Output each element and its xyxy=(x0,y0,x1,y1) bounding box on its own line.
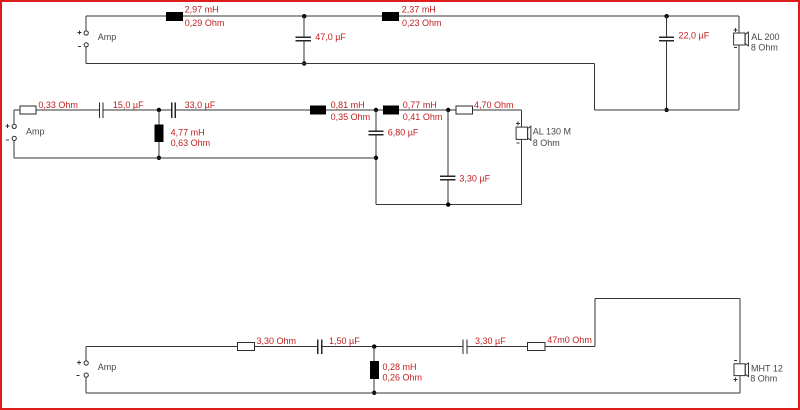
amp plus sign xyxy=(77,361,81,365)
wire L6 upper lead xyxy=(373,347,375,361)
svg-text:MHT 12: MHT 12 xyxy=(751,363,783,373)
speaker MHT 12 cone xyxy=(745,363,748,377)
capacitor C5 6,80 uF plates xyxy=(368,131,383,135)
capacitor C8 3,30 uF plates xyxy=(463,339,467,353)
resistor R1 0,33 Ohm xyxy=(20,106,36,114)
capacitor C6 3,30 uF plates xyxy=(440,176,455,180)
resistor R4 47m0 Ohm xyxy=(528,343,546,351)
wire bottom rail xyxy=(86,63,594,65)
svg-text:Amp: Amp xyxy=(98,362,117,372)
svg-text:0,81 mH: 0,81 mH xyxy=(331,100,365,110)
svg-text:Amp: Amp xyxy=(26,126,45,136)
speaker AL 200 cone xyxy=(745,32,748,46)
svg-text:2,97 mH: 2,97 mH xyxy=(185,5,219,15)
node: main rail / C5 junction xyxy=(374,108,378,112)
wire top rail xyxy=(86,15,739,17)
wire main rail segment 4 xyxy=(468,346,528,348)
node: top rail / C1 junction xyxy=(302,14,306,18)
svg-text:6,80 µF: 6,80 µF xyxy=(388,128,419,138)
node: return / C2 junction xyxy=(664,108,668,112)
svg-text:33,0 µF: 33,0 µF xyxy=(185,100,216,110)
capacitor C3 15,0 uF plates xyxy=(100,103,104,118)
svg-text:22,0 µF: 22,0 µF xyxy=(679,31,710,41)
svg-text:8 Ohm: 8 Ohm xyxy=(750,374,777,384)
svg-text:15,0 µF: 15,0 µF xyxy=(113,100,144,110)
amp plus sign xyxy=(6,124,10,128)
wire return horizontal upper xyxy=(595,109,740,111)
wire return rail xyxy=(86,392,740,394)
amp minus sign xyxy=(6,139,9,141)
wire amp- stub down xyxy=(13,141,15,158)
wire amp+ stub up xyxy=(13,110,15,124)
wire speaker bottom lead down xyxy=(521,139,523,204)
wire main rail segment 1 xyxy=(86,346,237,348)
node: main rail / C6 junction xyxy=(446,108,450,112)
svg-text:47m0 Ohm: 47m0 Ohm xyxy=(547,335,592,345)
svg-text:0,77 mH: 0,77 mH xyxy=(403,100,437,110)
svg-text:Amp: Amp xyxy=(98,32,117,42)
node: main rail / L6 junction xyxy=(372,344,376,348)
capacitor C1 47,0 uF plates xyxy=(296,37,311,40)
svg-text:0,26 Ohm: 0,26 Ohm xyxy=(383,373,423,383)
wire main rail segment 5 xyxy=(326,109,383,111)
wire bypass vertical up xyxy=(594,298,596,346)
capacitor C2 22,0 uF plates xyxy=(659,37,674,40)
speaker AL 130 M plus sign xyxy=(516,121,520,125)
svg-text:1,50 µF: 1,50 µF xyxy=(329,336,360,346)
speaker MHT 12 minus sign xyxy=(734,359,737,361)
svg-text:8 Ohm: 8 Ohm xyxy=(533,138,560,148)
wire C5 upper lead xyxy=(375,110,377,131)
wire C2 upper lead xyxy=(666,16,668,37)
amp plus sign xyxy=(78,31,82,35)
wire amp+ stub up xyxy=(85,16,87,31)
speaker MHT 12 plus sign xyxy=(733,377,737,381)
node: lower return / C6 junction xyxy=(446,202,450,206)
svg-text:0,28 mH: 0,28 mH xyxy=(383,362,417,372)
wire amp- stub down xyxy=(85,47,87,64)
svg-text:0,33 Ohm: 0,33 Ohm xyxy=(38,100,78,110)
inductor L3 4,77 mH (vertical) xyxy=(155,125,164,142)
speaker AL 130 M minus sign xyxy=(516,142,519,144)
inductor L1 2,97 mH xyxy=(166,12,183,21)
svg-text:AL 200: AL 200 xyxy=(751,32,779,42)
capacitor C4 33,0 uF plates xyxy=(172,103,176,118)
wire C2 lower lead xyxy=(666,41,668,110)
wire C6 upper lead xyxy=(447,110,449,176)
wire L6 lower lead xyxy=(373,379,375,393)
node: mid return rail / L3 junction xyxy=(157,156,161,160)
wire main rail segment 3 xyxy=(104,109,171,111)
wire main rail segment 6 xyxy=(399,109,456,111)
svg-text:8 Ohm: 8 Ohm xyxy=(751,43,778,53)
capacitor C7 1,50 uF plates xyxy=(318,339,322,353)
wire C6 lower lead xyxy=(447,181,449,205)
node: bottom rail / C1 junction xyxy=(302,61,306,65)
svg-text:47,0 µF: 47,0 µF xyxy=(315,32,346,42)
inductor L2 2,37 mH xyxy=(382,12,399,21)
speaker AL 200 plus sign xyxy=(734,28,738,32)
speaker AL 200 box xyxy=(734,33,745,45)
wire main rail segment 4 xyxy=(176,109,310,111)
node: top rail / C2 junction xyxy=(664,14,668,18)
wire C5 lower lead xyxy=(375,135,377,157)
wire mid return rail xyxy=(14,157,376,159)
amp symbol (woofer channel) terminal circles xyxy=(84,31,88,47)
wire lower return horizontal xyxy=(376,204,522,206)
inductor L4 0,81 mH xyxy=(310,106,326,115)
svg-text:0,23 Ohm: 0,23 Ohm xyxy=(402,18,442,28)
svg-text:2,37 mH: 2,37 mH xyxy=(402,5,436,15)
inductor L5 0,77 mH xyxy=(383,106,399,115)
amp symbol (mid channel) terminal circles xyxy=(12,124,16,140)
wire C1 upper lead xyxy=(303,16,305,37)
svg-text:3,30 Ohm: 3,30 Ohm xyxy=(257,336,297,346)
svg-text:0,35 Ohm: 0,35 Ohm xyxy=(331,112,371,122)
wire L3 lower lead xyxy=(158,142,160,158)
resistor R3 3,30 Ohm xyxy=(238,343,255,351)
amp minus sign xyxy=(77,375,80,377)
wire speaker bottom lead down xyxy=(739,376,741,393)
node: mid return rail / C5 junction xyxy=(374,156,378,160)
wire amp- stub down xyxy=(85,377,87,393)
wire main rail segment 3 xyxy=(322,346,462,348)
wire bypass horizontal xyxy=(595,297,740,299)
wire main rail segment 1 xyxy=(14,109,20,111)
wire speaker bottom lead down xyxy=(738,45,740,110)
amp minus sign xyxy=(78,45,81,47)
svg-text:0,29 Ohm: 0,29 Ohm xyxy=(185,18,225,28)
amp symbol (tweeter channel) terminal circles xyxy=(84,361,88,377)
wire main rail segment 7 xyxy=(473,109,522,111)
speaker AL 130 M cone xyxy=(528,126,531,140)
speaker AL 130 M box xyxy=(516,127,527,139)
wire speaker top lead xyxy=(738,16,740,33)
svg-text:4,77 mH: 4,77 mH xyxy=(171,128,205,138)
node: return rail / L6 junction xyxy=(372,391,376,395)
node: main rail / L3 junction xyxy=(157,108,161,112)
wire return vertical step xyxy=(594,64,596,110)
wire speaker top lead down xyxy=(739,298,741,363)
inductor L6 0,28 mH (vertical) xyxy=(370,361,379,379)
wire L3 upper lead xyxy=(158,110,160,125)
wire main rail segment 2 xyxy=(36,109,99,111)
wire mid return vertical step xyxy=(375,158,377,205)
wire amp+ stub up xyxy=(85,347,87,361)
speaker MHT 12 box xyxy=(734,364,745,376)
resistor R2 4,70 Ohm xyxy=(456,106,473,114)
wire main rail segment 5 xyxy=(545,346,595,348)
wire speaker top lead xyxy=(521,110,523,127)
svg-text:0,41 Ohm: 0,41 Ohm xyxy=(403,112,443,122)
svg-text:3,30 µF: 3,30 µF xyxy=(475,336,506,346)
svg-text:AL 130 M: AL 130 M xyxy=(533,126,571,136)
svg-text:3,30 µF: 3,30 µF xyxy=(459,173,490,183)
svg-text:4,70 Ohm: 4,70 Ohm xyxy=(474,100,514,110)
svg-text:0,63 Ohm: 0,63 Ohm xyxy=(171,138,211,148)
wire C1 lower lead xyxy=(303,41,305,63)
wire main rail segment 2 xyxy=(255,346,318,348)
speaker AL 200 minus sign xyxy=(734,47,737,49)
